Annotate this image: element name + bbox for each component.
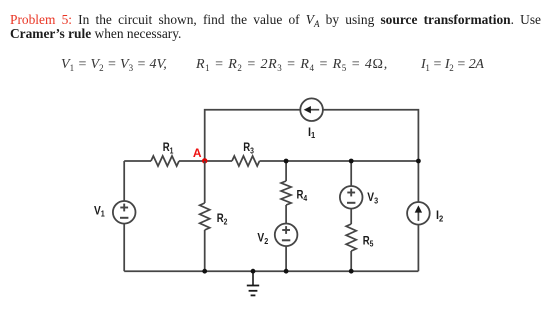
wire: left rail lower (123, 224, 125, 272)
junction dot middle rail x=286 (284, 159, 289, 164)
svg-text:R4: R4 (297, 189, 308, 203)
node A (202, 158, 207, 163)
wire: between V3 and R5 (350, 209, 352, 224)
junction dot bottom rail x=205 (202, 269, 207, 274)
current source I2 (407, 202, 430, 225)
svg-text:R3: R3 (243, 141, 254, 155)
svg-text:V1: V1 (94, 205, 105, 219)
resistor R5 (346, 224, 356, 251)
svg-text:V3: V3 (367, 191, 378, 205)
wire: R5 lower stem (350, 251, 352, 271)
resistor R3 (232, 156, 259, 166)
wire: right rail upper (417, 161, 419, 202)
problem statement paragraph (10, 13, 541, 42)
ground (247, 271, 259, 295)
junction dot bottom rail x=253 (251, 269, 256, 274)
wire: between R4 and V2 (285, 205, 287, 224)
svg-text:V2: V2 (257, 232, 268, 246)
svg-text:A: A (193, 146, 202, 160)
voltage source V2 (275, 224, 298, 247)
svg-text:I1: I1 (308, 126, 316, 140)
junction dot bottom rail x=351 (349, 269, 354, 274)
current source I1 (300, 98, 323, 121)
wire: R2 branch lower stem (204, 230, 206, 271)
wire: R4/V2 branch upper stem (285, 161, 287, 181)
wire: middle rail left of R1 (124, 160, 151, 162)
wire: right rail lower (417, 225, 419, 272)
voltage source V3 (340, 186, 363, 209)
wire: R2 branch upper stem (204, 161, 206, 203)
wire: middle rail right of R3 (260, 160, 419, 162)
wire: top rail right segment (323, 110, 419, 161)
given values math line (0, 57, 549, 77)
resistor R4 (281, 181, 291, 205)
resistor R1 (151, 156, 179, 166)
wire: top rail left segment (205, 110, 301, 161)
junction dot middle rail x=351 (349, 159, 354, 164)
wire: V3 branch upper stem (350, 161, 352, 186)
svg-text:I2: I2 (436, 210, 444, 224)
resistor R2 (200, 203, 210, 230)
svg-text:R1: R1 (163, 141, 174, 155)
junction dot bottom rail x=286 (284, 269, 289, 274)
wire: bottom rail (124, 270, 418, 272)
wire: middle rail between R1 and R3 (179, 160, 232, 162)
svg-text:R5: R5 (363, 234, 374, 248)
junction dot middle rail x=418 (416, 159, 421, 164)
voltage source V1 (113, 201, 136, 224)
wire: V2 lower stem (285, 246, 287, 271)
svg-text:R2: R2 (217, 212, 228, 226)
wire: left rail upper (123, 161, 125, 201)
